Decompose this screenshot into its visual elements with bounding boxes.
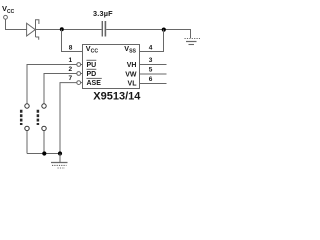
wire junction to pin 4 VSS of U1 <box>140 30 164 52</box>
svg-text:7: 7 <box>69 75 73 82</box>
svg-text:5: 5 <box>149 67 153 74</box>
svg-text:VW: VW <box>125 71 137 78</box>
pin number 3 <box>149 57 153 64</box>
IC U1 body X9513/14 <box>83 45 140 89</box>
U1 label ASE with overbar <box>87 80 102 87</box>
pushbutton S1 bottom contact <box>25 126 29 130</box>
svg-text:4: 4 <box>149 44 153 51</box>
pushbutton S2 top contact <box>42 104 46 108</box>
pin 1 bubble <box>77 63 81 67</box>
pin number 8 <box>69 44 73 51</box>
pushbutton S2 bottom contact <box>42 126 46 130</box>
svg-text:VL: VL <box>128 81 138 88</box>
svg-text:PD: PD <box>87 71 97 78</box>
wire pin 7 ASE to ground bus <box>60 83 77 154</box>
pin 7 bubble <box>77 81 81 85</box>
junction node at VCC branch <box>60 27 64 31</box>
wire VCC terminal to diode anode <box>6 19 27 29</box>
U1 label VW <box>125 71 137 78</box>
svg-text:PU: PU <box>87 62 97 69</box>
svg-text:VH: VH <box>127 62 137 69</box>
svg-text:6: 6 <box>149 76 153 83</box>
junction S2 with bus <box>42 151 46 155</box>
wire S2 to ground bus <box>43 131 45 154</box>
pin 3 wire VH <box>140 64 167 66</box>
pin number 6 <box>149 76 153 83</box>
svg-text:1: 1 <box>69 57 73 64</box>
pin 2 bubble stub <box>81 73 83 75</box>
ground bus wire <box>27 153 60 155</box>
pin 7 bubble stub <box>81 82 83 84</box>
pushbutton S1 top contact <box>25 104 29 108</box>
U1 label PD with overbar <box>87 71 97 78</box>
pin number 1 <box>69 57 73 64</box>
wire junction to pin 8 VCC of U1 <box>62 30 83 52</box>
pin 6 wire VL <box>140 83 167 85</box>
pushbutton S1 actuator <box>20 110 23 125</box>
svg-text:ASE: ASE <box>87 80 102 87</box>
svg-text:VCC: VCC <box>2 4 15 15</box>
diode CR1 triangle <box>27 23 36 36</box>
pin number 2 <box>69 66 73 73</box>
U1 label VH <box>127 62 137 69</box>
terminal VCC <box>4 15 8 19</box>
U1 label VSS <box>124 44 136 55</box>
ground symbol top right <box>185 39 201 45</box>
ground symbol bottom <box>51 163 68 169</box>
pin 5 wire VW <box>140 73 167 75</box>
pin number 4 <box>149 44 153 51</box>
junction node at VSS branch <box>162 28 166 32</box>
wire pin 2 to switch S2 <box>44 74 77 104</box>
junction ASE with bus <box>58 151 62 155</box>
pin 1 bubble stub <box>81 64 83 66</box>
net label VCC <box>2 4 15 15</box>
svg-text:3: 3 <box>149 57 153 64</box>
pin number 7 <box>69 75 73 82</box>
wire pin 1 to switch S1 <box>27 65 77 104</box>
pushbutton S2 actuator <box>37 110 40 125</box>
wire S1 to ground bus <box>26 131 28 154</box>
svg-text:8: 8 <box>69 44 73 51</box>
wire bus to bottom ground <box>59 154 61 163</box>
wire capacitor to ground <box>106 30 190 39</box>
U1 part number label <box>93 91 141 103</box>
svg-text:X9513/14: X9513/14 <box>93 91 141 103</box>
svg-text:2: 2 <box>69 66 73 73</box>
diode CR1 cathode bar with bent ends <box>36 20 39 40</box>
value label 3.3uF <box>93 9 113 18</box>
U1 label VCC <box>86 44 99 55</box>
U1 label PU with overbar <box>87 62 97 69</box>
wire diode to capacitor <box>36 29 102 31</box>
svg-text:3.3µF: 3.3µF <box>93 9 113 18</box>
pin number 5 <box>149 67 153 74</box>
pin 2 bubble <box>77 72 81 76</box>
U1 label VL <box>128 81 138 88</box>
capacitor C1 plates <box>101 21 103 37</box>
